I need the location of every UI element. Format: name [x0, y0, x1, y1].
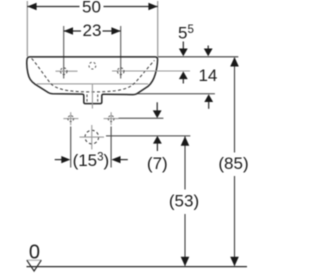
right tap hole crosshair with reference line to 5.5 dimension — [112, 70, 190, 72]
dimension 50: right arrowhead — [148, 3, 157, 10]
dimension (85): vertical line upper segment — [234, 58, 236, 153]
rim top reference line — [158, 56, 238, 58]
dimension 14: lower arrowhead pointing up — [204, 94, 213, 102]
dimension (15.3): right arrowhead pointing left — [111, 156, 120, 163]
overflow hole (dashed circle) — [89, 62, 96, 69]
dimension (7): upper arrowhead pointing down — [153, 110, 162, 118]
dimension (15.3): right arrow tail — [120, 159, 128, 161]
dimension (7): lower arrow tail — [156, 143, 158, 151]
dimension 23: left extension line (through left tap hole) — [63, 26, 65, 79]
dimension (15.3): left arrow tail — [55, 159, 62, 161]
dimension (7): upper arrow tail — [156, 102, 158, 110]
svg-text:14: 14 — [198, 66, 217, 85]
inner bowl rim (hidden edge, dashed) — [32, 58, 155, 92]
floor datum triangle sides — [27, 260, 42, 271]
svg-text:(153): (153) — [73, 151, 110, 170]
drain boss hidden hole (dashed verticals) — [86, 95, 88, 104]
dimension 23: dimension line right segment — [103, 30, 121, 32]
dimension 5.5: lower arrow tail — [182, 79, 184, 84]
hidden rear bottom edge line — [37, 83, 148, 85]
dimension (85): lower arrowhead pointing down — [230, 257, 239, 267]
left fixing hole crosshair — [63, 118, 78, 120]
drain boss centerline — [91, 85, 93, 109]
dimension 50: right extension line — [157, 1, 159, 57]
dimension (15.3): right extension line — [110, 127, 112, 168]
dimension (53): vertical line upper segment — [184, 137, 186, 190]
dimension (15.3): left arrowhead pointing right — [61, 156, 70, 163]
fixing holes level reference line — [119, 117, 164, 119]
dimension 14: upper arrowhead pointing down — [204, 49, 213, 57]
dimension (7): lower arrowhead pointing up — [153, 136, 162, 144]
dimension (53): upper arrowhead pointing up — [181, 136, 190, 146]
svg-text:(85): (85) — [218, 154, 248, 173]
left tap hole crosshair — [56, 70, 78, 72]
drain hole crosshair — [80, 136, 105, 138]
dimension 50: dimension line right segment — [104, 6, 158, 8]
dimension 23: right extension line (through right tap hole) — [120, 26, 122, 79]
floor datum triangle top edge — [27, 259, 42, 261]
dimension (53): lower arrowhead pointing down — [181, 257, 190, 267]
dimension 50: dimension line left segment — [27, 6, 79, 8]
svg-text:(53): (53) — [169, 191, 199, 210]
dimension 23: right arrowhead — [111, 27, 120, 34]
right fixing hole crosshair — [104, 118, 119, 120]
dimension 23: dimension line left segment — [64, 30, 81, 32]
dimension 50: left extension line — [26, 1, 28, 57]
dimension (85): vertical line lower segment — [234, 176, 236, 266]
washbasin outline (front view) — [27, 57, 158, 104]
svg-text:23: 23 — [83, 21, 102, 40]
dimension 50: left arrowhead — [27, 3, 36, 10]
svg-text:50: 50 — [82, 0, 101, 16]
floor line — [27, 266, 248, 268]
dimension 14: upper arrow tail — [207, 46, 209, 50]
dimension 5.5: upper arrowhead pointing down — [179, 49, 188, 57]
dimension 23: left arrowhead — [64, 27, 73, 34]
dimension 14: lower arrow tail — [208, 102, 210, 109]
svg-text:(7): (7) — [147, 154, 168, 173]
basin bottom reference line — [136, 93, 215, 95]
dimension 5.5: lower arrowhead pointing up — [179, 71, 188, 79]
dimension 5.5: leader line down — [182, 42, 184, 50]
drain level reference line — [106, 135, 190, 137]
dimension (53): vertical line lower segment — [184, 214, 186, 266]
dimension (15.3): left extension line — [70, 127, 72, 168]
drain hole (dashed circle) — [85, 130, 99, 144]
dimension (85): upper arrowhead pointing up — [230, 57, 239, 67]
